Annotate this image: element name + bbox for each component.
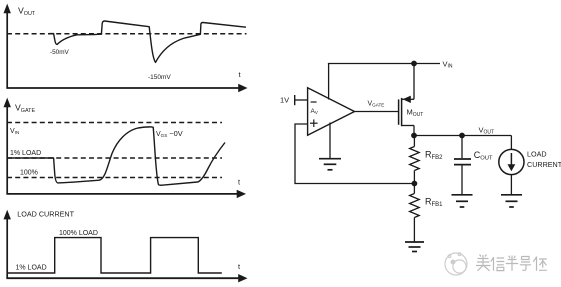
plot 2 vertical axis [4, 98, 11, 195]
plot 3 horizontal axis [6, 274, 247, 282]
resistor RFB1 [410, 184, 444, 243]
svg-text:LOAD: LOAD [527, 149, 547, 158]
node VOUT junction dot at drain [411, 133, 417, 139]
resistor RFB2 [410, 136, 444, 184]
plot 1 horizontal axis [6, 84, 247, 92]
current source LOAD CURRENT [499, 136, 561, 195]
watermark text 美信半导体 [476, 255, 547, 271]
capacitor COUT [454, 136, 493, 195]
plot 2 VGATE waveform [7, 127, 225, 185]
svg-text:-150mV: -150mV [148, 74, 171, 81]
svg-text:AV: AV [311, 108, 318, 115]
plot 2 dashed 100% level line [7, 177, 222, 179]
wire feedback to op-amp plus input [295, 124, 414, 184]
svg-text:1V: 1V [280, 96, 289, 105]
transistor MOUT (PMOS) [399, 64, 424, 137]
svg-text:1% LOAD: 1% LOAD [10, 150, 41, 157]
plot 3 vertical axis [4, 210, 11, 279]
wire 1V to op-amp inverting input [295, 99, 308, 101]
plot 3 load current square waveform [7, 238, 222, 273]
wire op-amp positive supply to VIN rail [328, 64, 330, 100]
plot 2 dashed VIN level line [7, 122, 222, 124]
wire op-amp output to gate (VGATE node) [355, 101, 399, 112]
1V reference source [280, 95, 295, 105]
svg-text:CURRENT: CURRENT [527, 160, 561, 169]
ground below op-amp [319, 159, 341, 170]
ground below current source [501, 195, 522, 207]
ground below RFB1 [405, 242, 424, 252]
plot 1 vertical axis [4, 4, 11, 89]
node VOUT wire [414, 135, 511, 137]
plot 1 VOUT waveform [49, 21, 246, 62]
watermark logo icon [445, 253, 467, 275]
svg-text:-50mV: -50mV [50, 49, 70, 56]
svg-text:1% LOAD: 1% LOAD [16, 264, 47, 271]
svg-text:100%: 100% [20, 170, 38, 177]
op-amp AV [308, 88, 355, 135]
plot 2 horizontal axis [6, 190, 246, 198]
svg-text:100% LOAD: 100% LOAD [59, 230, 98, 237]
plot 1 dashed nominal line [7, 33, 247, 35]
wire op-amp negative supply down [329, 123, 331, 159]
node COUT junction dot [459, 133, 465, 139]
svg-text:LOAD CURRENT: LOAD CURRENT [17, 210, 74, 219]
wire VIN top rail [328, 63, 440, 65]
node feedback junction dot [412, 181, 418, 187]
node VIN junction dot [411, 61, 417, 67]
plot 2 dashed 1% load level line [7, 157, 222, 159]
svg-text:VGS ~0V: VGS ~0V [156, 129, 183, 138]
ground below COUT [452, 195, 473, 207]
